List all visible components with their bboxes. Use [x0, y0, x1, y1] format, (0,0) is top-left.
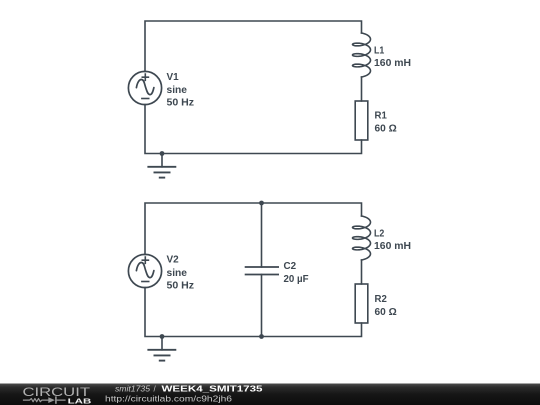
- svg-text:sine: sine: [167, 268, 188, 279]
- svg-text:160 mH: 160 mH: [374, 241, 411, 252]
- svg-text:L1: L1: [374, 45, 385, 56]
- svg-text:160 mH: 160 mH: [374, 58, 411, 69]
- svg-text:60 Ω: 60 Ω: [375, 123, 397, 134]
- svg-text:LAB: LAB: [68, 397, 92, 405]
- svg-text:http://circuitlab.com/c9h2jh6: http://circuitlab.com/c9h2jh6: [105, 393, 232, 403]
- svg-text:R1: R1: [375, 111, 388, 122]
- svg-text:sine: sine: [167, 85, 188, 96]
- svg-text:L2: L2: [374, 228, 385, 239]
- svg-text:C2: C2: [284, 261, 297, 272]
- svg-text:20 µF: 20 µF: [284, 274, 309, 285]
- svg-text:50 Hz: 50 Hz: [167, 281, 195, 292]
- svg-text:50 Hz: 50 Hz: [167, 98, 195, 109]
- svg-text:WEEK4_SMIT1735: WEEK4_SMIT1735: [162, 383, 263, 393]
- svg-text:V1: V1: [167, 72, 179, 83]
- svg-text:smit1735: smit1735: [115, 384, 151, 393]
- svg-text:V2: V2: [167, 254, 179, 265]
- svg-text:R2: R2: [375, 294, 388, 305]
- svg-text:60 Ω: 60 Ω: [375, 307, 397, 318]
